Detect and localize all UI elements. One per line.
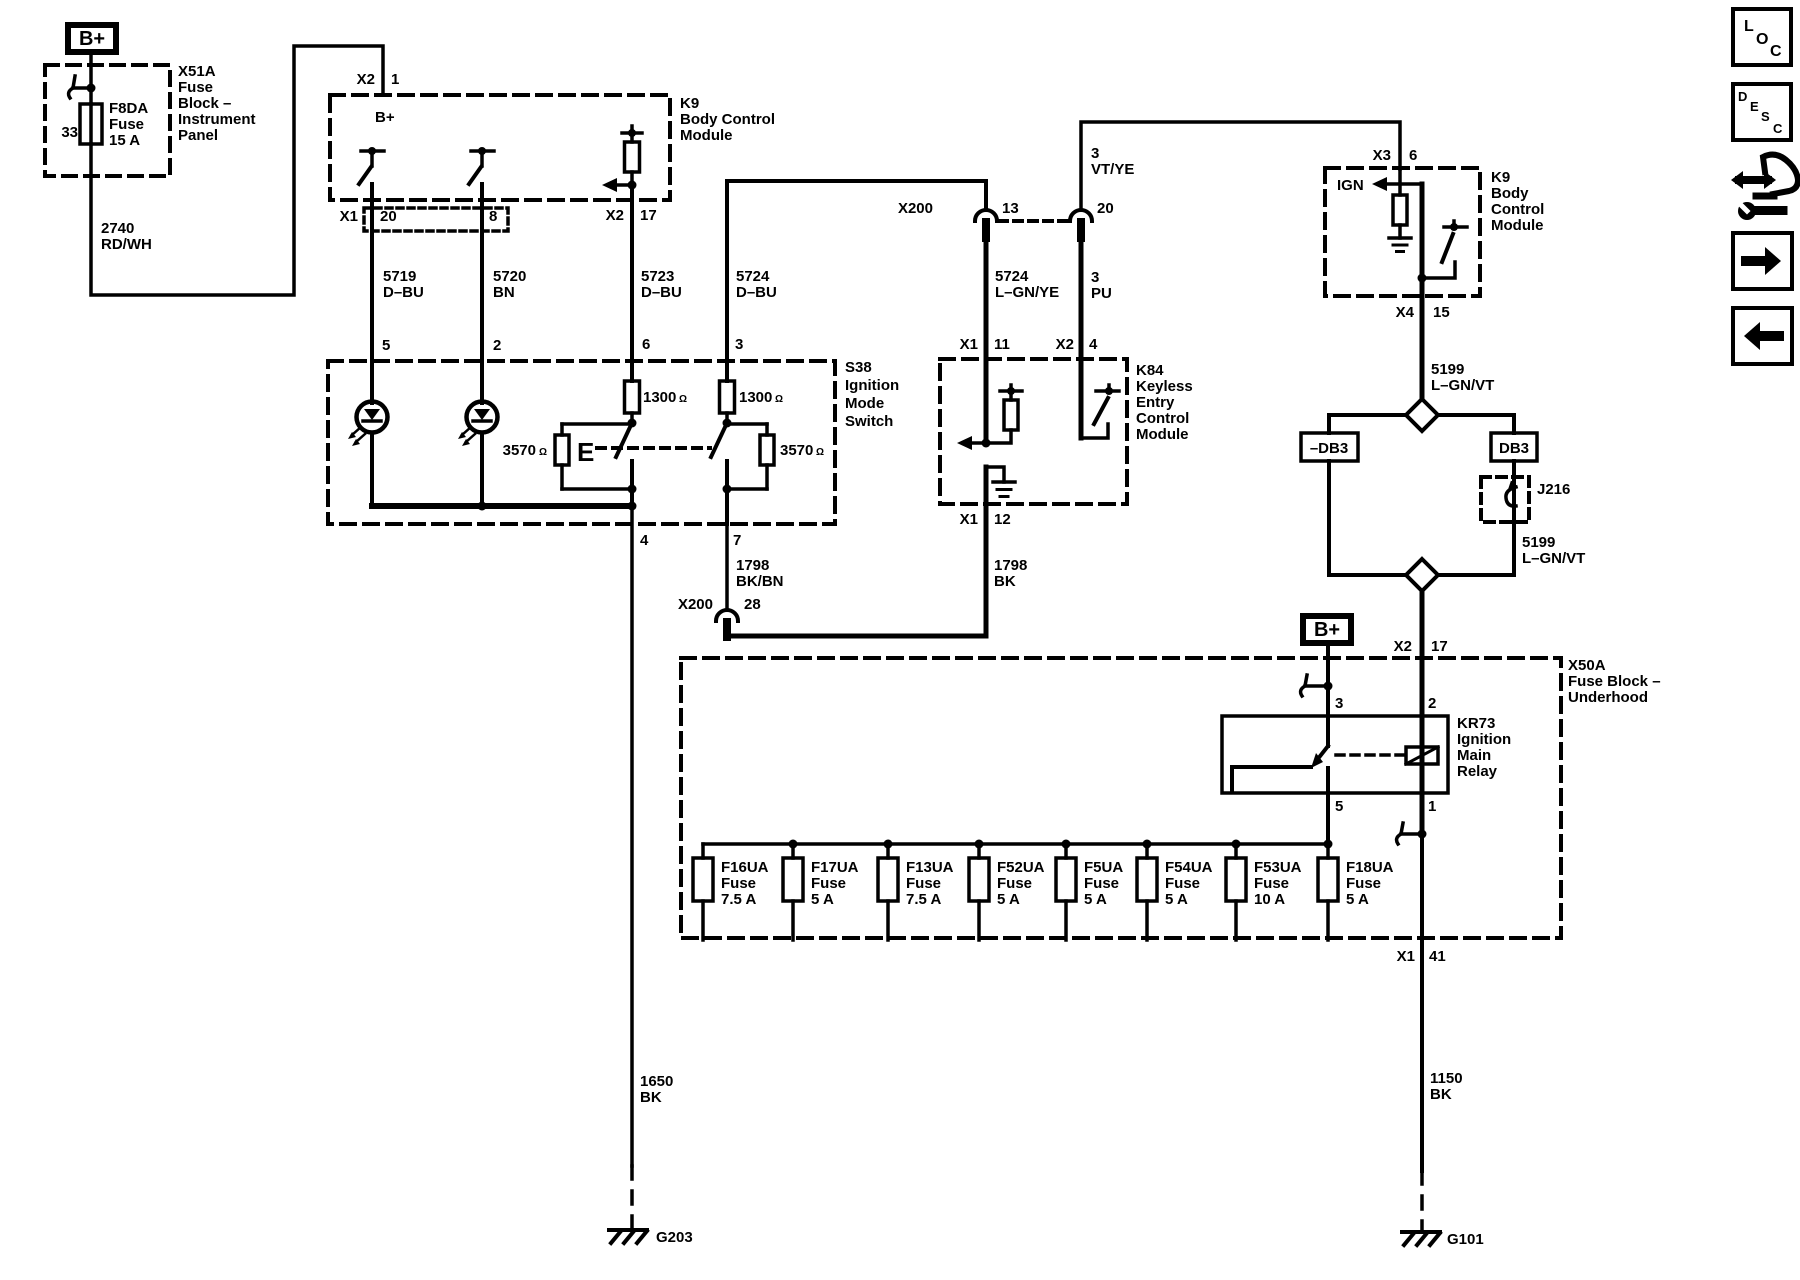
value label 3570 ohm (left) [503,442,547,459]
connector X200 dashed pairing line [999,219,1068,223]
module K9 Body Control Module dashed box [330,95,670,200]
value label 3570 ohm (right) [780,442,824,459]
svg-text:F18UA: F18UA [1346,859,1394,876]
wire label 1650 BK [640,1073,673,1106]
svg-text:F8DA: F8DA [109,100,148,117]
ground symbol inside BCM2 [1389,238,1411,252]
bus-bar hook terminal at relay pin 3 [1301,675,1333,696]
svg-text:1150: 1150 [1430,1070,1463,1087]
svg-text:BN: BN [493,284,515,301]
label X51A Fuse Block - Instrument Panel [178,63,256,144]
svg-text:15: 15 [1433,304,1450,321]
svg-text:1650: 1650 [640,1073,673,1090]
wire 3 PU to K84 X2-4 [1079,238,1084,438]
wire -DB3 to bottom splice [1329,461,1406,575]
splice diamond (bottom) [1406,559,1438,591]
svg-text:1798: 1798 [736,557,769,574]
svg-text:F5UA: F5UA [1084,859,1123,876]
svg-text:5724: 5724 [736,268,770,285]
legend back arrow box [1733,308,1792,364]
resistor 3570 ohm (left) in S38 [555,424,631,489]
svg-text:BK/BN: BK/BN [736,573,784,590]
svg-text:L–GN/YE: L–GN/YE [995,284,1059,301]
svg-text:11: 11 [994,336,1010,353]
svg-text:X2: X2 [606,207,624,224]
wire right branch to DB3 [1438,415,1514,433]
net reference -DB3 box [1301,433,1358,461]
label F8DA Fuse 15 A [109,100,148,149]
svg-text:12: 12 [994,511,1011,528]
splice diamond (top) [1406,399,1438,431]
svg-text:20: 20 [380,208,397,225]
svg-text:28: 28 [744,596,761,613]
fuse block X51A dashed box [45,65,170,176]
wire LED2 to bus [480,433,484,506]
fuse F16UA 7.5 A [693,844,769,940]
svg-text:Fuse: Fuse [906,875,941,892]
value label 1300 ohm (right) [739,389,783,406]
svg-text:G101: G101 [1447,1231,1484,1248]
fuse F18UA 5 A [1318,844,1394,940]
wire label 5723 D-BU [641,268,682,301]
svg-text:E: E [1750,99,1759,114]
svg-text:17: 17 [1431,638,1448,655]
svg-text:F53UA: F53UA [1254,859,1302,876]
connector X2 pin 17 labels (X50A top) [1394,638,1448,655]
switch inside BCM2 [1422,221,1467,278]
svg-text:E: E [577,437,594,467]
resistor in BCM (pin X2-17 driver) [622,126,642,185]
svg-text:Main: Main [1457,747,1491,764]
svg-text:Fuse: Fuse [109,116,144,133]
wire relay pin 1 to X1-41 [1420,834,1424,1171]
switch S38 Ignition Mode Switch dashed box [328,361,835,524]
svg-text:Fuse: Fuse [1084,875,1119,892]
svg-text:Module: Module [1136,426,1189,443]
svg-text:5720: 5720 [493,268,526,285]
svg-text:1: 1 [391,71,399,88]
switch inside K84 [1081,385,1119,438]
wire label 5724 D-BU [736,268,777,301]
relay dashed actuation link [1336,753,1404,757]
wire label 5720 BN [493,268,526,301]
svg-text:5 A: 5 A [1165,891,1188,908]
svg-text:3: 3 [1335,695,1343,712]
connector X200 pin 28 [678,596,761,637]
svg-text:Mode: Mode [845,395,884,412]
svg-text:X1: X1 [1397,948,1415,965]
label K9 Body Control Module (right) [1491,169,1544,234]
connector X2 pin 17 labels (BCM bottom) [606,207,657,224]
svg-text:3: 3 [735,336,743,353]
svg-text:3: 3 [1091,269,1099,286]
svg-text:K9: K9 [1491,169,1510,186]
svg-text:B+: B+ [375,109,395,126]
svg-text:G203: G203 [656,1229,693,1246]
svg-text:O: O [1756,31,1768,48]
battery feed symbol B+ (top left) [68,25,116,52]
switch in BCM (pin X1-8) [469,147,494,184]
svg-text:X3: X3 [1373,147,1391,164]
svg-text:F17UA: F17UA [811,859,859,876]
svg-text:J216: J216 [1537,481,1570,498]
svg-text:X1: X1 [960,336,978,353]
svg-text:Keyless: Keyless [1136,378,1193,395]
svg-text:Ignition: Ignition [1457,731,1511,748]
svg-text:5723: 5723 [641,268,674,285]
svg-text:X1: X1 [340,208,358,225]
fuse F5UA 5 A [1056,844,1123,940]
svg-text:Control: Control [1136,410,1189,427]
svg-text:5199: 5199 [1522,534,1555,551]
svg-text:Ignition: Ignition [845,377,899,394]
label S38 Ignition Mode Switch [845,359,899,430]
ground G203 [609,1229,693,1246]
svg-text:3570: 3570 [780,442,813,459]
svg-text:Relay: Relay [1457,763,1498,780]
svg-text:X2: X2 [1394,638,1412,655]
svg-text:5 A: 5 A [811,891,834,908]
ground G101 [1402,1231,1484,1248]
mechanical link dashed line [597,446,710,450]
wire label 1798 BK/BN [736,557,784,590]
svg-text:3: 3 [1091,145,1099,162]
relay contact L conductor [1232,767,1311,790]
splice J216 hook symbol [1506,483,1516,506]
connector X200 pin 13 [975,200,1019,238]
svg-text:C: C [1770,43,1782,60]
wire 5723 from BCM to S38 pin 6 [630,185,634,381]
svg-text:X4: X4 [1396,304,1415,321]
svg-text:5 A: 5 A [1084,891,1107,908]
connector X1 pin 41 labels (X50A bottom) [1397,948,1446,965]
label KR73 Ignition Main Relay [1457,715,1511,780]
dashed wire tail to G101 [1420,1171,1424,1232]
switch in BCM (pin X1-20) [359,147,384,184]
label K84 Keyless Entry Control Module [1136,362,1193,443]
svg-text:5: 5 [1335,798,1343,815]
wire LED1 to bus [370,433,374,506]
legend DESC box [1733,84,1791,140]
svg-text:D: D [1738,89,1747,104]
svg-text:X2: X2 [357,71,375,88]
svg-text:4: 4 [640,532,649,549]
svg-text:DB3: DB3 [1499,440,1529,457]
fuse F53UA 10 A [1226,844,1302,940]
wire 1798 bottom run [727,636,986,637]
fuse F52UA 5 A [969,844,1045,940]
wire 5724 D-BU from S38 pin 3 to X200-13 [727,181,986,361]
svg-text:Fuse: Fuse [721,875,756,892]
svg-text:Entry: Entry [1136,394,1175,411]
svg-text:Fuse: Fuse [1346,875,1381,892]
pull-up resistor inside K84 [969,385,1022,443]
bus-bar hook terminal at relay pin 1 [1397,823,1427,844]
svg-text:1: 1 [1428,798,1436,815]
svg-text:D–BU: D–BU [641,284,682,301]
wire 1798 BK/BN from S38 pin 7 to X200-28 [725,524,729,610]
svg-text:Ω: Ω [539,447,547,458]
svg-text:BK: BK [640,1089,662,1106]
svg-text:5724: 5724 [995,268,1029,285]
wire IGN branch down to X4-15 [1418,184,1427,399]
svg-text:5: 5 [382,337,390,354]
svg-text:1300: 1300 [739,389,772,406]
svg-text:1300: 1300 [643,389,676,406]
wire 3 VT/YE from X200-20 to BCM X3-6 [1081,122,1400,210]
svg-text:Module: Module [1491,217,1544,234]
svg-text:PU: PU [1091,285,1112,302]
svg-text:Fuse: Fuse [1165,875,1200,892]
connector X200 pin 20 [1070,200,1114,238]
connector X1 pin 12 labels (K84 bottom) [960,511,1011,528]
fuse F17UA 5 A [783,844,859,940]
svg-text:B+: B+ [1314,619,1340,641]
fuse block X50A dashed box [681,658,1561,938]
wire 5724 L-GN/YE to K84 X1-11 [984,238,989,443]
svg-text:8: 8 [489,208,497,225]
svg-text:F54UA: F54UA [1165,859,1213,876]
fuse bus in X50A [703,840,1333,849]
legend LOC box [1733,9,1791,65]
svg-text:Fuse: Fuse [997,875,1032,892]
svg-text:VT/YE: VT/YE [1091,161,1134,178]
svg-text:3570: 3570 [503,442,536,459]
net label IGN with arrow inside BCM2 [1337,177,1422,194]
input resistor inside BCM2 [1393,169,1407,238]
svg-text:Ω: Ω [679,394,687,405]
svg-text:X51A: X51A [178,63,216,80]
value label 1300 ohm (left) [643,389,687,406]
wire label 5719 D-BU [383,268,424,301]
wire label 1798 BK [994,557,1027,590]
svg-text:BK: BK [994,573,1016,590]
connector X3 pin 6 labels (BCM2 top) [1373,147,1418,164]
indicator LED 2 in S38 [458,402,498,447]
svg-text:KR73: KR73 [1457,715,1495,732]
net reference DB3 box [1491,433,1537,461]
wire switch to S38 pin 2 [480,184,484,403]
svg-text:S: S [1761,109,1770,124]
wire K84 X1-12 down [984,467,989,636]
svg-text:Fuse: Fuse [1254,875,1289,892]
wire B+ to fuse F8DA [89,55,93,104]
svg-text:Underhood: Underhood [1568,689,1648,706]
svg-text:2: 2 [493,337,501,354]
svg-text:X1: X1 [960,511,978,528]
svg-text:D–BU: D–BU [383,284,424,301]
switch blade (right) in S38 [711,419,732,525]
svg-text:15 A: 15 A [109,132,140,149]
resistor 1300 ohm (left) in S38 [625,381,640,424]
svg-text:L–GN/VT: L–GN/VT [1522,550,1585,567]
svg-text:K9: K9 [680,95,699,112]
wire label 3 PU [1091,269,1112,302]
wire label 1150 BK [1430,1070,1463,1103]
svg-text:7.5 A: 7.5 A [906,891,941,908]
svg-text:17: 17 [640,207,657,224]
svg-text:Module: Module [680,127,733,144]
svg-text:4: 4 [1089,336,1098,353]
svg-text:Ω: Ω [775,394,783,405]
svg-text:Body Control: Body Control [680,111,775,128]
svg-text:1798: 1798 [994,557,1027,574]
svg-text:Switch: Switch [845,413,893,430]
label 2740 RD/WH [101,220,152,253]
indicator LED 1 in S38 [348,402,388,447]
svg-text:Instrument: Instrument [178,111,256,128]
wire 2740 RD/WH from fuse to BCM X2-1 [91,46,383,295]
svg-text:5199: 5199 [1431,361,1464,378]
svg-text:L: L [1744,18,1754,35]
dashed wire tail to G203 [630,1166,634,1230]
svg-text:L–GN/VT: L–GN/VT [1431,377,1494,394]
svg-text:X200: X200 [678,596,713,613]
svg-text:RD/WH: RD/WH [101,236,152,253]
switch blade (left) in S38 [616,419,637,507]
svg-text:Body: Body [1491,185,1529,202]
legend forward arrow box [1733,233,1792,289]
svg-text:41: 41 [1429,948,1446,965]
svg-text:S38: S38 [845,359,872,376]
wire left branch to -DB3 [1329,415,1406,433]
fuse F54UA 5 A [1137,844,1213,940]
svg-text:7: 7 [733,532,741,549]
svg-text:F13UA: F13UA [906,859,954,876]
wire relay pin 5 to fuse bus [1326,768,1330,844]
svg-text:D–BU: D–BU [736,284,777,301]
resistor 1300 ohm (right) in S38 [720,361,735,424]
svg-text:5719: 5719 [383,268,416,285]
wire DB3 down through J216 [1438,461,1514,575]
svg-text:5 A: 5 A [1346,891,1369,908]
svg-text:C: C [1773,121,1783,136]
bus-bar hook terminal in X51A [69,76,96,98]
svg-text:IGN: IGN [1337,177,1364,194]
svg-text:2: 2 [1428,695,1436,712]
signal arrow out of BCM resistor [602,178,637,192]
battery feed symbol B+ (above X50A) [1303,616,1351,643]
svg-text:F52UA: F52UA [997,859,1045,876]
wire switch to S38 pin 5 [370,184,374,403]
connector X4 pin 15 labels (BCM2 bottom) [1396,304,1450,321]
fuse F8DA 15 A [80,104,102,144]
connector X1 pins 20 and 8 labels [340,208,498,225]
relay KR73 Ignition Main Relay box [1222,716,1448,793]
wire bottom splice to X50A X2-17 [1420,591,1425,716]
svg-text:Block –: Block – [178,95,231,112]
svg-text:33: 33 [61,124,78,141]
svg-text:6: 6 [642,336,650,353]
svg-text:K84: K84 [1136,362,1164,379]
wire 1650 BK from S38 pin 4 down [630,506,634,1166]
ground symbol inside K84 [986,467,1015,497]
wire label 5199 L-GN/VT (lower) [1522,534,1585,567]
ground bus inside S38 [372,502,637,511]
wire B+ to relay pin 3 [1326,646,1330,746]
wire label 3 VT/YE [1091,145,1134,178]
wire label 5199 L-GN/VT (upper) [1431,361,1494,394]
svg-text:–DB3: –DB3 [1310,440,1348,457]
wire label 5724 L-GN/YE [995,268,1059,301]
svg-text:13: 13 [1002,200,1019,217]
wire relay pin 2 through coil to pin 1 [1420,716,1425,834]
svg-text:5 A: 5 A [997,891,1020,908]
svg-text:6: 6 [1409,147,1417,164]
svg-text:2740: 2740 [101,220,134,237]
label K9 Body Control Module [680,95,775,144]
connector X2 pin 4 labels (K84 top) [1056,336,1098,353]
svg-text:Control: Control [1491,201,1544,218]
module K9 Body Control Module (right) dashed box [1325,168,1480,296]
svg-text:X200: X200 [898,200,933,217]
svg-text:X2: X2 [1056,336,1074,353]
connector X1 dotted box under BCM [364,208,508,231]
svg-text:7.5 A: 7.5 A [721,891,756,908]
resistor 3570 ohm (right) in S38 [727,424,774,489]
svg-text:Ω: Ω [816,447,824,458]
relay coil [1406,747,1438,764]
svg-text:BK: BK [1430,1086,1452,1103]
legend diagnostic tool icon [1731,155,1798,220]
splice J216 dashed box [1481,477,1529,522]
connector X2 pin 1 labels (BCM top) [357,71,400,88]
svg-text:Fuse: Fuse [811,875,846,892]
svg-text:B+: B+ [79,28,105,50]
module K84 Keyless Entry Control Module dashed box [940,359,1127,504]
svg-text:20: 20 [1097,200,1114,217]
relay switch blade with arrow [1311,746,1328,768]
svg-text:Panel: Panel [178,127,218,144]
svg-text:Fuse: Fuse [178,79,213,96]
svg-text:F16UA: F16UA [721,859,769,876]
input arrow inside K84 [957,436,991,450]
svg-text:10 A: 10 A [1254,891,1285,908]
connector X1 pin 11 labels (K84 top) [960,336,1010,353]
svg-text:X50A: X50A [1568,657,1606,674]
label X50A Fuse Block - Underhood [1568,657,1661,706]
fuse F13UA 7.5 A [878,844,954,940]
svg-text:Fuse Block –: Fuse Block – [1568,673,1661,690]
